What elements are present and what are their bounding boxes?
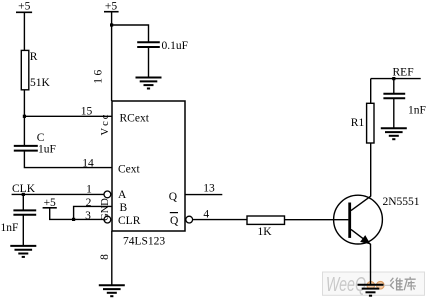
svg-text:Q: Q (169, 191, 178, 203)
wire REF to capacitor C4 (393, 79, 395, 94)
svg-text:2: 2 (86, 197, 92, 209)
svg-text:4: 4 (203, 209, 209, 221)
svg-text:51K: 51K (30, 77, 51, 89)
ground (C4 capacitor) (381, 128, 407, 139)
svg-text:CLR: CLR (118, 215, 141, 227)
svg-text:1: 1 (86, 183, 92, 195)
wire C3 to ground (148, 47, 150, 78)
svg-text:R: R (30, 51, 38, 63)
svg-text:14: 14 (82, 157, 94, 169)
node B/CLR junction (72, 218, 75, 221)
transistor Q1 circle (334, 195, 383, 244)
capacitor C3 0.1uF (137, 42, 160, 47)
power +5 rail VCC1 (left) (16, 1, 32, 13)
wire VCC3 to pin 16 (111, 12, 113, 101)
output bubble pin Qbar (186, 216, 193, 223)
Q1 collector diagonal (351, 196, 371, 210)
svg-text:Vcc: Vcc (100, 113, 111, 136)
svg-text:REF: REF (393, 66, 414, 78)
ground (0.1uF capacitor) (136, 78, 162, 89)
svg-text:RCext: RCext (120, 113, 150, 125)
svg-text:+5: +5 (105, 0, 117, 12)
ground (CLK capacitor) (10, 246, 36, 257)
svg-text:3: 3 (85, 210, 91, 222)
svg-text:1nF: 1nF (408, 104, 426, 116)
svg-text:Cext: Cext (118, 163, 141, 175)
label Qbar (170, 213, 179, 227)
svg-text:1K: 1K (257, 226, 272, 238)
svg-text:2N5551: 2N5551 (383, 196, 420, 208)
input bubble pin CLR (104, 216, 111, 223)
wire CLK node to capacitor C2 (22, 194, 24, 210)
capacitor C (14, 146, 38, 151)
svg-text:C: C (37, 132, 45, 144)
watermark text 维库 (390, 277, 416, 291)
node REF junction (392, 77, 395, 80)
wire VCC2 down and right (50, 208, 74, 220)
svg-text:1nF: 1nF (1, 222, 19, 234)
svg-text:15: 15 (81, 105, 93, 117)
wire C4 to ground (393, 98, 395, 128)
power +5 rail VCC2 (at B/CLR) (43, 197, 57, 209)
capacitor C2 1nF (13, 210, 36, 214)
op IC U1 74LS123 box (112, 101, 185, 231)
ground (emitter) (358, 285, 384, 296)
wire pin 15 RCext (24, 115, 112, 117)
wire pin 3 CLR (74, 218, 104, 220)
wire to capacitor C3 (112, 25, 149, 42)
wire emitter to ground (370, 244, 372, 285)
Q1 emitter diagonal (351, 229, 371, 244)
wire R2 to Q1 base (285, 219, 349, 221)
resistor R (21, 50, 29, 89)
wire REF rail (371, 78, 421, 80)
wire VCC1 to resistor R (23, 12, 25, 50)
wire to pin 2 B (74, 206, 112, 219)
node VCC3 junction (110, 23, 113, 26)
node RC junction (23, 115, 26, 118)
svg-text:GND: GND (100, 198, 111, 221)
wire pin 13 Q stub (185, 194, 222, 196)
power +5 rail VCC3 (top) (104, 0, 119, 12)
wire R1 to REF rail (370, 79, 372, 104)
wire CLK to pin 1 A (12, 193, 104, 195)
ground (pin 8) (99, 285, 125, 296)
wire pin 8 to ground (111, 231, 113, 285)
wire collector to R1 (370, 143, 372, 197)
svg-text:13: 13 (203, 182, 215, 194)
resistor R2 1K (247, 216, 285, 224)
watermark box (323, 272, 425, 295)
node CLK junction (22, 193, 25, 196)
wire C2 to ground (22, 215, 24, 246)
wire R to node RC (23, 90, 25, 146)
svg-text:A: A (118, 189, 127, 201)
svg-text:R1: R1 (351, 117, 365, 129)
svg-text:16: 16 (93, 67, 105, 84)
svg-text:+5: +5 (18, 1, 30, 13)
svg-text:1uF: 1uF (38, 143, 56, 155)
svg-text:0.1uF: 0.1uF (162, 40, 189, 52)
wire C to pin 14 Cext (24, 151, 112, 168)
svg-text:8: 8 (99, 254, 111, 260)
input bubble pin A (104, 191, 111, 198)
svg-text:74LS123: 74LS123 (123, 235, 165, 247)
resistor R1 (367, 103, 374, 143)
capacitor C4 1nF (383, 94, 405, 99)
wire Qbar to resistor R2 (193, 219, 247, 221)
svg-text:Q: Q (170, 215, 179, 227)
Q1 emitter arrow (361, 236, 370, 244)
svg-text:B: B (120, 202, 128, 214)
watermark logo oo dots (362, 281, 392, 289)
Q1 base bar (348, 203, 351, 238)
